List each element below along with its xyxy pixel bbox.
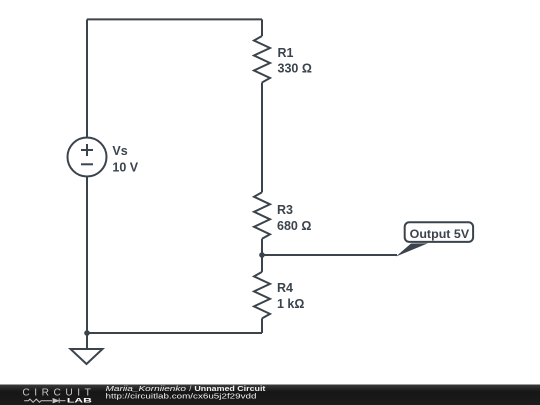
svg-text:330 Ω: 330 Ω (278, 62, 312, 76)
svg-text:http://circuitlab.com/cx6u5j2f: http://circuitlab.com/cx6u5j2f29vdd (106, 392, 257, 401)
svg-text:R3: R3 (277, 203, 293, 217)
svg-text:Vs: Vs (112, 144, 127, 158)
svg-text:Output 5V: Output 5V (410, 227, 470, 241)
svg-text:R4: R4 (277, 281, 293, 295)
svg-text:10 V: 10 V (112, 161, 138, 175)
svg-text:LAB: LAB (67, 398, 92, 405)
svg-text:1 kΩ: 1 kΩ (277, 297, 304, 311)
svg-text:R1: R1 (278, 46, 294, 60)
svg-text:680 Ω: 680 Ω (277, 219, 311, 233)
